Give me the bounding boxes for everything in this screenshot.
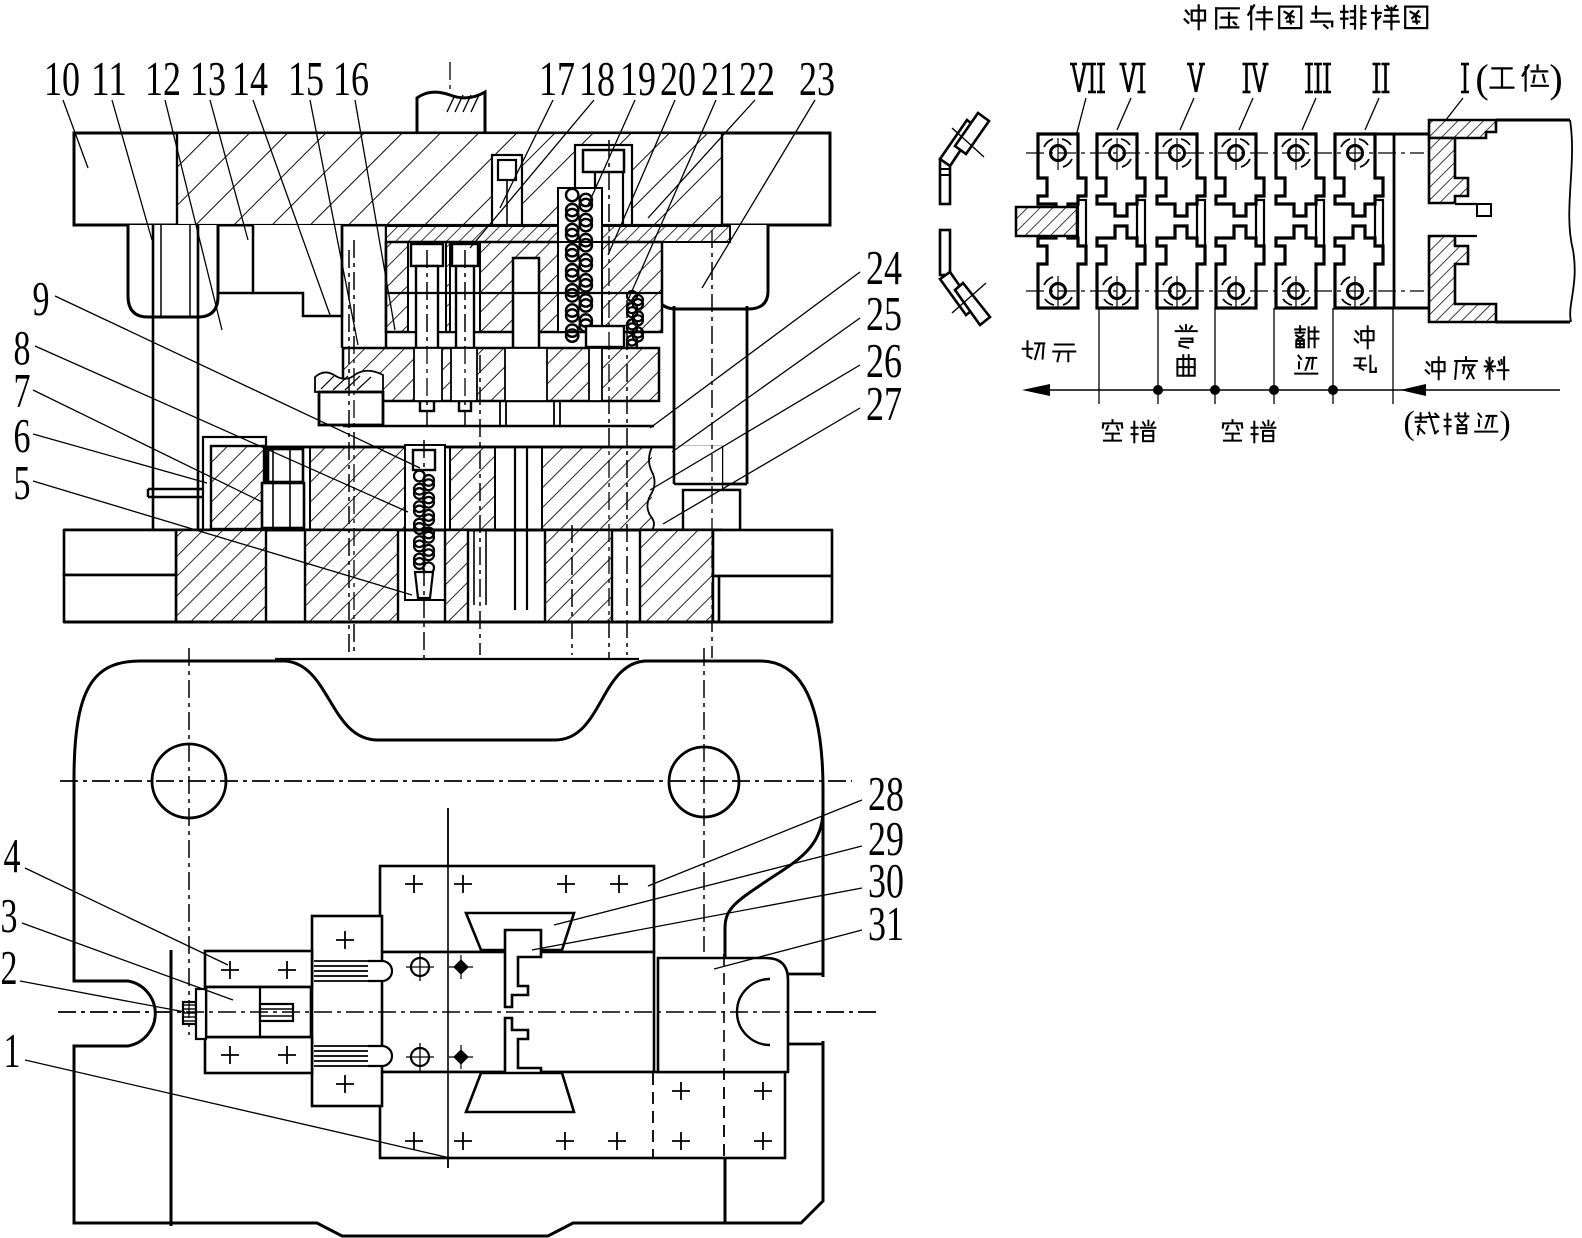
hole upper station 6 (1348, 146, 1363, 161)
punch 16 left: stepped punch (411, 244, 443, 266)
spring bar upper with pin (314, 960, 368, 962)
upper plate inner edge right S-curve (725, 810, 823, 958)
die insert cavity (319, 392, 383, 425)
svg-text:19: 19 (620, 51, 656, 106)
block 8 white slab upper (268, 449, 303, 482)
numeral leader lines (1058, 98, 1086, 205)
die insert edges in feed gap (499, 401, 501, 426)
centerlines lower (348, 250, 350, 655)
spring pin 9 5: channel (405, 445, 445, 600)
spring 22 small right (627, 291, 637, 301)
hole lower station 6 (1348, 284, 1363, 299)
svg-text:): ) (1499, 405, 1510, 442)
strip part lower station 6 (1335, 226, 1383, 308)
bottom plate of assembly (380, 1072, 785, 1158)
svg-text:3: 3 (1, 888, 18, 943)
end piece top hatched band (1429, 120, 1496, 138)
bottom dovetail trapezoid (466, 1073, 574, 1112)
strip part lower station 2 (1097, 226, 1145, 308)
plan labels right leaders (648, 800, 862, 886)
wire: vertical centerline of shank (449, 62, 451, 230)
carrier edge line to end piece lower (1375, 307, 1429, 310)
strip shear cut line (1393, 134, 1396, 308)
leaders right labels (650, 272, 860, 428)
ejector pins in left channel (272, 447, 274, 530)
left block lower (205, 1037, 312, 1073)
stripper plate hatched (343, 348, 659, 401)
screw 19 shaft (594, 172, 596, 330)
bent part view upper (940, 159, 950, 204)
dashed bolt lines in bottom rect (652, 1073, 654, 1158)
svg-text:22: 22 (739, 51, 775, 106)
label fanbian (1295, 326, 1318, 347)
screw pocket 19 with screw head (575, 145, 632, 225)
right bolt hole (669, 747, 739, 817)
holder plate divider (386, 292, 662, 294)
pillar T flange (505, 375, 547, 391)
centerline vertical left bolt (188, 648, 190, 1035)
spring pocket (558, 242, 602, 332)
block 7 hatched (211, 446, 264, 529)
label kongdang 1 (1103, 420, 1122, 441)
left guide bushing 11 (128, 225, 218, 317)
punch holder plate 15 (386, 242, 662, 332)
spring 20 large (566, 189, 578, 201)
label chongfeiliao (1426, 357, 1445, 379)
inner wedge rect (260, 1004, 293, 1021)
hole upper station 3 (1170, 146, 1185, 161)
plan view: lower die outline (74, 661, 823, 1236)
pins in bottom plate channels (473, 530, 475, 605)
end piece left lower hatched band with foot (1429, 236, 1496, 322)
right guide post (673, 306, 676, 484)
bottom left step blocks (64, 530, 176, 575)
strip part upper station 4 (1216, 134, 1264, 216)
label chongkong (1355, 326, 1374, 348)
hole lower station 3 (1170, 284, 1185, 299)
right pocket notch (820, 977, 828, 1041)
svg-text:1: 1 (4, 1023, 21, 1078)
svg-text:27: 27 (866, 376, 902, 431)
die face line (343, 425, 654, 428)
punch hole right (450, 242, 480, 332)
strip part upper station 5 (1276, 134, 1324, 216)
svg-text:13: 13 (190, 51, 226, 106)
svg-text:20: 20 (660, 51, 696, 106)
left guide post 12 (152, 225, 155, 575)
svg-text:14: 14 (232, 51, 268, 106)
right guide bushing block 23 (657, 225, 768, 309)
lower die plate 26 hatched with channels (205, 447, 722, 530)
svg-text:(: ( (1403, 405, 1414, 442)
cut-off part hatched at left (1016, 207, 1077, 236)
bottom bolster plate outline (64, 529, 176, 532)
hole upper station 2 (1110, 146, 1125, 161)
main horizontal axis lower (58, 1011, 880, 1013)
narrow left plate (312, 916, 382, 1106)
die plate center (380, 952, 654, 1072)
clamp block 3 (206, 987, 311, 1037)
dowel diamond lower (453, 1049, 469, 1065)
left bolt hole (152, 744, 226, 818)
strip part lower station 5 (1276, 226, 1324, 308)
block 6 outer (203, 437, 266, 530)
strip part upper station 1 (1038, 134, 1086, 216)
stripper bolt pillar 21 (513, 258, 539, 391)
svg-text:21: 21 (701, 51, 737, 106)
centerline vertical right bolt (703, 648, 705, 952)
pin tip (415, 572, 433, 598)
svg-text:): ) (1549, 56, 1562, 101)
block 8 white slab lower (262, 483, 304, 528)
station tick verticals (1098, 308, 1100, 404)
bottom plate hatched zones (176, 530, 266, 622)
hole lower station 1 (1051, 284, 1066, 299)
strip layout title (1185, 5, 1205, 29)
carrier edge line to end piece upper (1375, 133, 1429, 136)
nut at screw bottom (586, 326, 624, 347)
strip part lower station 3 (1157, 226, 1205, 308)
right post bottom block (683, 490, 740, 530)
svg-text:23: 23 (799, 51, 835, 106)
right clamp block 31 (658, 958, 788, 1072)
svg-text:15: 15 (288, 51, 324, 106)
svg-text:11: 11 (91, 51, 127, 106)
plan labels left (25, 868, 228, 965)
upper die plate 10 (74, 133, 830, 225)
hole lower station 4 (1229, 284, 1244, 299)
label wanqu (1176, 325, 1197, 348)
bottom plate lower edge (64, 621, 832, 624)
half-moon arc in block 31 (737, 979, 770, 1045)
strip part upper station 3 (1157, 134, 1205, 216)
bridge tabs between strip rows (1078, 200, 1086, 250)
wavy break-out patch (315, 371, 383, 392)
svg-text:9: 9 (33, 271, 50, 326)
svg-text:18: 18 (579, 51, 615, 106)
strip part upper station 2 (1097, 134, 1145, 216)
svg-text:12: 12 (145, 51, 181, 106)
central vertical line (447, 808, 449, 1168)
upper die holder plate 28 (380, 866, 654, 952)
main horizontal axis upper (60, 780, 852, 782)
top dovetail trapezoid 29 (466, 913, 574, 950)
svg-text:31: 31 (868, 896, 904, 951)
dowel diamond upper (453, 959, 469, 975)
feed direction line with arrow (1046, 389, 1560, 391)
centerline overlays cross-section (353, 240, 355, 655)
bent part view lower (940, 230, 950, 275)
lower plate edge line across saddle (275, 658, 639, 660)
pin head (413, 450, 435, 470)
label qiekai (1023, 341, 1045, 359)
hatch region of upper plate (177, 133, 722, 225)
svg-text:4: 4 (4, 828, 21, 883)
end piece outline (1496, 119, 1570, 122)
inner vertical edge bottom-left (170, 950, 173, 1226)
block 13 under plate (253, 225, 342, 316)
hole lower station 5 (1289, 284, 1304, 299)
svg-text:2: 2 (1, 940, 18, 995)
spring bar lower with pin (314, 1045, 368, 1047)
station label gongwei (1491, 68, 1514, 87)
svg-text:16: 16 (333, 51, 369, 106)
hole upper station 4 (1229, 146, 1244, 161)
screw 2 head with threads (183, 1002, 196, 1024)
strip part upper station 6 (1335, 134, 1383, 216)
end piece notch edges (1455, 203, 1477, 205)
dowel circle-cross lower (411, 1048, 429, 1066)
end piece left upper hatched band with profile step (1429, 138, 1468, 203)
svg-text:(: ( (1475, 56, 1488, 101)
strip part lower station 1 (1038, 226, 1086, 308)
station numerals (1070, 64, 1105, 92)
shank (417, 92, 485, 133)
upper plate inner edge right lower (724, 1158, 727, 1223)
hole upper station 5 (1289, 146, 1304, 161)
hole upper station 1 (1051, 146, 1066, 161)
svg-text:10: 10 (44, 51, 80, 106)
stripper punch channels (414, 348, 442, 401)
spring of pin (414, 471, 425, 482)
wavy die block edge (647, 447, 654, 530)
lower part profile (505, 1018, 541, 1095)
bottom right step blocks (713, 530, 832, 576)
dowel circle-cross upper (411, 958, 429, 976)
left block upper (205, 951, 312, 987)
upper part profile 30 (505, 930, 541, 1007)
punch backing strip (386, 226, 730, 242)
screw pocket 17 (492, 155, 522, 225)
punch 18 right (452, 244, 478, 266)
column 14 (341, 225, 344, 348)
strip part lower station 4 (1216, 226, 1264, 308)
right guide post redraw (673, 306, 676, 484)
row centerline lower (1026, 290, 1424, 292)
leaders left labels (55, 296, 420, 468)
leader lines top row (63, 100, 88, 168)
process dots (1153, 385, 1163, 395)
row centerline upper (1026, 152, 1424, 154)
svg-text:5: 5 (14, 455, 31, 510)
centerline overlays plan view (188, 648, 190, 1035)
spring pocket upper in top plate (558, 188, 602, 242)
left stack plates 6 7 (148, 488, 204, 491)
svg-text:17: 17 (539, 51, 575, 106)
punch hole left (408, 242, 446, 332)
label kongdang 2 (1223, 420, 1242, 441)
hole lower station 2 (1110, 284, 1125, 299)
